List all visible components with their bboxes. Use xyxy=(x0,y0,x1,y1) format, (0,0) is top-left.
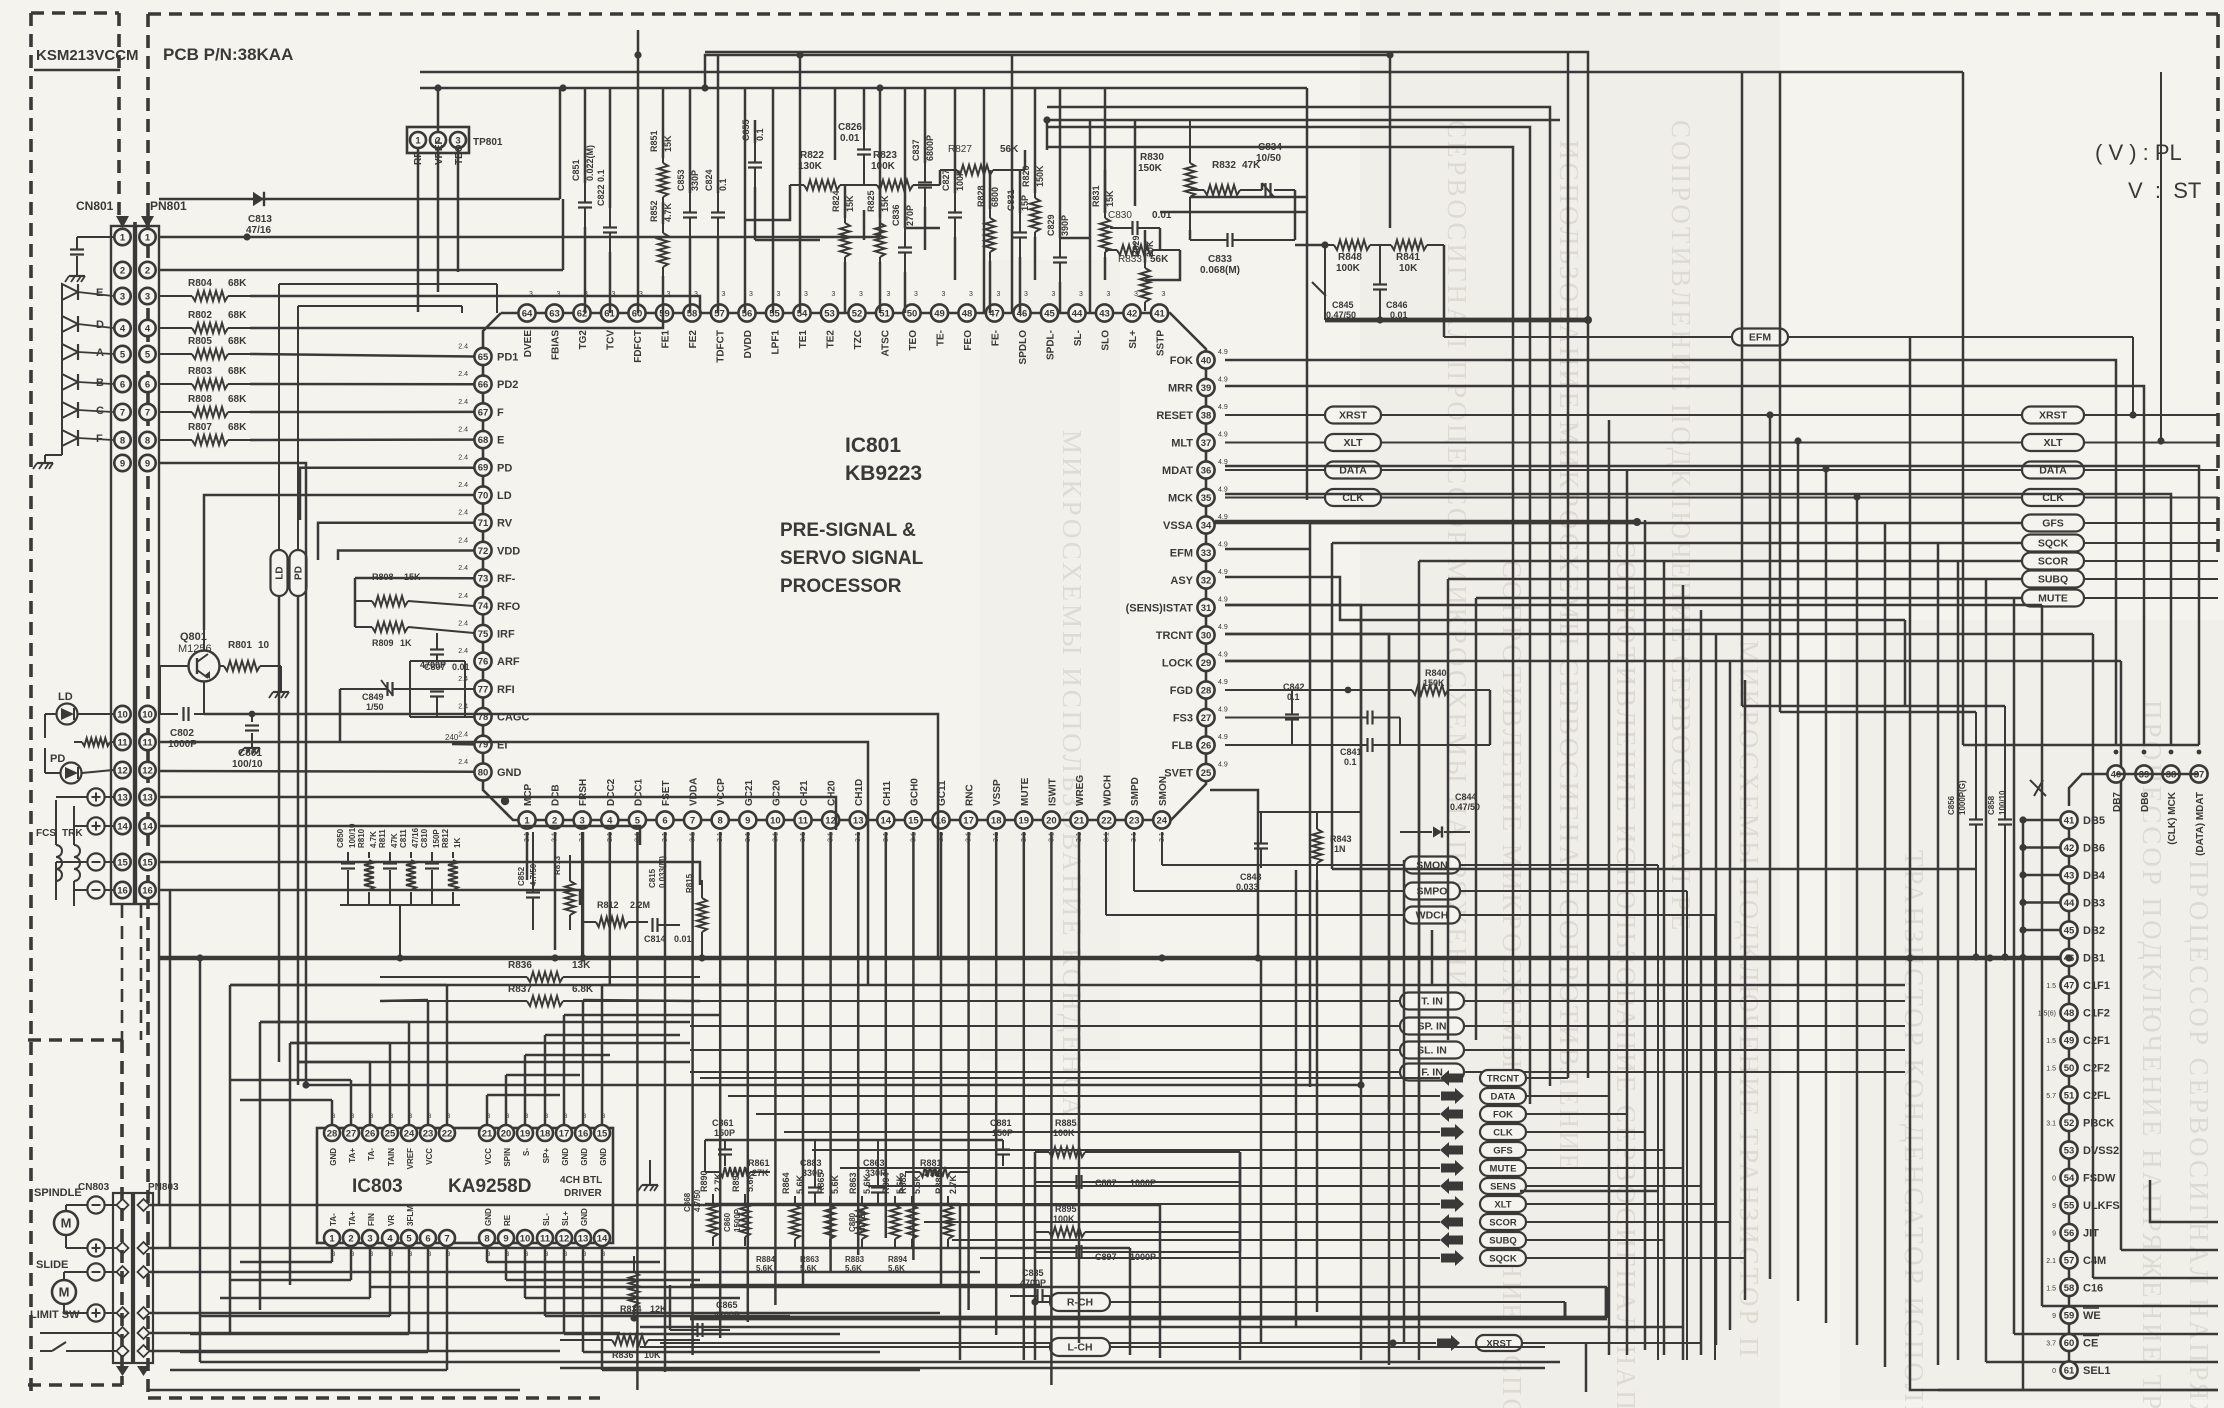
svg-text:43: 43 xyxy=(2064,870,2075,881)
svg-text:65: 65 xyxy=(478,352,489,363)
svg-text:C861: C861 xyxy=(712,1118,734,1128)
svg-text:13: 13 xyxy=(853,815,864,826)
op-amp IC803 KA9258D outline xyxy=(317,1128,613,1243)
svg-text:SQCK: SQCK xyxy=(2038,538,2069,550)
pin 55 (ULKFS) xyxy=(2052,1196,2120,1213)
svg-text:3: 3 xyxy=(120,291,125,302)
svg-text:T. IN: T. IN xyxy=(1421,996,1443,1008)
svg-text:MUTE: MUTE xyxy=(2038,593,2068,605)
svg-text:C810: C810 xyxy=(420,828,429,848)
wire xyxy=(354,578,357,627)
svg-text:41: 41 xyxy=(1154,308,1165,319)
net tag SQCK mid-low xyxy=(980,1250,1745,1266)
wire xyxy=(583,1000,700,1001)
svg-text:55: 55 xyxy=(769,308,780,319)
net tag GFS mid-low xyxy=(812,1142,1664,1158)
svg-text:2.4: 2.4 xyxy=(458,704,468,711)
wire xyxy=(1239,1152,1242,1252)
wire xyxy=(289,1043,292,1285)
svg-text:8: 8 xyxy=(484,1233,489,1244)
svg-text:RE: RE xyxy=(503,1214,512,1226)
wire xyxy=(582,1000,585,1125)
svg-text:6800P: 6800P xyxy=(925,135,935,161)
svg-text:VCCP: VCCP xyxy=(716,778,727,806)
wire xyxy=(662,202,665,224)
wire xyxy=(506,1279,700,1282)
wire xyxy=(306,1084,1361,1087)
net tag F. IN xyxy=(690,1064,1905,1081)
svg-text:50: 50 xyxy=(2064,1063,2075,1074)
wire xyxy=(1306,88,1309,500)
wire xyxy=(199,958,202,1362)
wire xyxy=(159,198,560,201)
svg-text:R880: R880 xyxy=(934,1172,944,1194)
net tag SUBQ mid-low xyxy=(952,1232,1664,1248)
svg-text:C844: C844 xyxy=(1455,792,1477,802)
net tag SENS mid-low xyxy=(868,1178,1701,1194)
svg-text:1: 1 xyxy=(120,232,126,243)
svg-text:11: 11 xyxy=(117,737,128,748)
resistor R807 68K xyxy=(159,422,250,445)
resistor R829 20K xyxy=(1131,235,1155,311)
junction xyxy=(1158,954,1165,961)
svg-text:R810: R810 xyxy=(357,828,366,848)
wire xyxy=(705,52,1588,1078)
wire xyxy=(1047,147,1513,1123)
capacitor C856b xyxy=(891,204,915,272)
svg-text:4CH BTL: 4CH BTL xyxy=(560,1175,602,1186)
svg-text:RV: RV xyxy=(497,518,513,530)
wire xyxy=(297,596,300,1085)
capacitor C828 xyxy=(741,119,765,187)
pin 42 (DB6) xyxy=(2060,839,2105,856)
svg-text:69: 69 xyxy=(478,463,489,474)
svg-text:12: 12 xyxy=(825,815,836,826)
wire xyxy=(159,797,836,830)
resistor R865v xyxy=(816,1172,840,1248)
resistor R809 1K xyxy=(355,622,474,648)
svg-text:68K: 68K xyxy=(228,394,247,405)
capacitor C841 0.1 xyxy=(1225,711,1400,768)
pin 3 IC803 xyxy=(362,1213,378,1258)
resistor R895 100K xyxy=(1035,1204,1240,1237)
svg-text:3: 3 xyxy=(887,291,891,298)
net tag MUTE mid-low xyxy=(840,1160,1683,1176)
pin 47 (FE-) xyxy=(986,291,1003,346)
pin 38 (RESET) xyxy=(1156,404,1228,424)
svg-text:330P: 330P xyxy=(690,170,700,191)
svg-text:( V ) : PL: ( V ) : PL xyxy=(2095,140,2182,165)
net tag PD xyxy=(290,306,463,596)
svg-text:DVEE: DVEE xyxy=(523,330,534,358)
wire xyxy=(1034,1302,1037,1360)
svg-text:R830: R830 xyxy=(1140,152,1164,163)
svg-text:5.6K: 5.6K xyxy=(745,1172,755,1192)
wire xyxy=(1225,660,2121,663)
svg-text:9: 9 xyxy=(2052,1231,2056,1238)
wire xyxy=(1295,244,1325,247)
wire xyxy=(584,88,587,183)
junction xyxy=(1386,51,1393,58)
pin 44 (SL-) xyxy=(1068,291,1085,346)
svg-text:6: 6 xyxy=(145,379,150,390)
svg-text:77: 77 xyxy=(478,684,489,695)
svg-text:16: 16 xyxy=(117,885,128,896)
wire xyxy=(2069,774,2107,806)
wire xyxy=(1023,832,1026,1360)
wire xyxy=(1225,386,2144,745)
wire xyxy=(1475,598,1478,1040)
wire xyxy=(857,832,860,1255)
svg-text:C807: C807 xyxy=(424,662,446,672)
wire xyxy=(1078,832,1081,1343)
svg-text:0.068(M): 0.068(M) xyxy=(1200,265,1240,276)
pin 12 (CH20) xyxy=(822,780,839,842)
pin 66 (PD2) xyxy=(458,371,518,393)
wire xyxy=(446,1246,449,1370)
pin 14 IC803 xyxy=(594,1230,610,1258)
wire xyxy=(505,1075,508,1125)
svg-text:R841: R841 xyxy=(1396,252,1420,263)
svg-text:8: 8 xyxy=(145,435,150,446)
pin 60 (CE) xyxy=(2046,1334,2099,1351)
junction DB xyxy=(2019,844,2026,851)
net tag CLK mid-low xyxy=(784,1124,1645,1140)
svg-text:3: 3 xyxy=(367,1233,372,1244)
wire xyxy=(260,1021,690,1024)
resistor R840 150K xyxy=(1225,668,1490,695)
resistor R882 5.6K xyxy=(898,1172,922,1248)
wire xyxy=(1046,120,1049,150)
wire xyxy=(662,276,665,313)
label CN803 xyxy=(78,1182,110,1193)
wire xyxy=(583,1351,880,1354)
svg-text:DRIVER: DRIVER xyxy=(564,1188,603,1199)
pin 48 (C1F2) xyxy=(2038,1004,2110,1021)
capacitor C831 15P xyxy=(1006,189,1030,257)
svg-text:LD: LD xyxy=(275,566,286,579)
wire xyxy=(220,1297,370,1300)
svg-text:GND: GND xyxy=(497,767,522,779)
label KA9258D xyxy=(448,1176,531,1197)
wire xyxy=(1780,711,1976,714)
resistor R802 68K xyxy=(159,310,250,333)
wire xyxy=(525,1297,740,1300)
pin 59 (WE) xyxy=(2052,1306,2101,1323)
wire xyxy=(1019,257,1022,313)
svg-text:TA-: TA- xyxy=(329,1213,338,1226)
svg-text:4.9: 4.9 xyxy=(1218,404,1228,411)
wire xyxy=(1011,55,1014,313)
svg-text:DCC1: DCC1 xyxy=(633,778,644,806)
wire xyxy=(457,149,460,272)
pin 27 IC803 xyxy=(343,1114,359,1163)
pin 28 (FGD) xyxy=(1170,679,1228,699)
pin 57 (C4M) xyxy=(2046,1251,2106,1268)
svg-text:1.5(6): 1.5(6) xyxy=(2038,1011,2056,1018)
wire xyxy=(705,55,1390,228)
svg-text:DVDD: DVDD xyxy=(743,330,754,358)
svg-text:VREF: VREF xyxy=(434,138,445,165)
wire xyxy=(1448,578,2022,581)
wire xyxy=(318,523,474,560)
wire xyxy=(959,1252,962,1360)
capacitor C858 100/10 xyxy=(1987,706,2046,961)
svg-text:CLK: CLK xyxy=(1493,1128,1513,1139)
svg-text:R812: R812 xyxy=(597,900,619,910)
svg-text:3: 3 xyxy=(1134,291,1138,298)
junction xyxy=(634,51,641,58)
svg-text:9: 9 xyxy=(145,458,150,469)
wire xyxy=(717,237,720,313)
svg-text:13: 13 xyxy=(578,1233,589,1244)
svg-text:46: 46 xyxy=(1017,308,1028,319)
pin 64 (DVEE) xyxy=(518,291,535,357)
svg-text:R836: R836 xyxy=(508,960,532,971)
wire xyxy=(1419,560,2022,563)
motor spindle xyxy=(54,1205,87,1248)
wire xyxy=(745,185,790,220)
wire xyxy=(170,1369,447,1372)
pin 16 IC803 xyxy=(575,1114,591,1166)
svg-text:TDFCT: TDFCT xyxy=(716,330,727,363)
pin 24 (SMON) xyxy=(1153,776,1170,842)
svg-text:KB9223: KB9223 xyxy=(845,462,922,485)
wire xyxy=(339,689,342,742)
svg-text:TRCNT: TRCNT xyxy=(1156,630,1194,642)
wire xyxy=(662,88,665,158)
junction comb xyxy=(1766,411,1860,500)
svg-text:71: 71 xyxy=(478,518,489,529)
svg-text:2.4: 2.4 xyxy=(458,399,468,406)
svg-text:ПРОЦЕССОР СЕРВОСИГНАЛ НАПРЯЖЕН: ПРОЦЕССОР СЕРВОСИГНАЛ НАПРЯЖЕН xyxy=(2184,860,2214,1408)
svg-text:C836: C836 xyxy=(891,204,901,226)
op-amp IC801 KB9223 outline xyxy=(483,313,1206,820)
svg-text:R851: R851 xyxy=(649,130,659,152)
wire xyxy=(298,1061,690,1064)
svg-text:R864: R864 xyxy=(781,1172,791,1194)
svg-text:7: 7 xyxy=(120,407,125,418)
junction DB xyxy=(2019,871,2026,878)
label SPINDLE xyxy=(34,1187,82,1199)
wire xyxy=(1626,470,1629,1355)
wire xyxy=(844,262,847,313)
wire xyxy=(954,88,957,193)
svg-text:SP+: SP+ xyxy=(542,1148,551,1164)
resistor R843 1N xyxy=(1312,812,1352,880)
pin 74 (RFO) xyxy=(458,593,520,615)
net tag LD xyxy=(271,284,498,596)
wire xyxy=(1034,237,1037,280)
pin 58 (C16) xyxy=(2046,1279,2103,1296)
capacitor C852 4.7/50 xyxy=(517,832,540,930)
pin 63 (FBIAS) xyxy=(546,291,563,360)
pin 1 IC803 xyxy=(324,1213,340,1258)
wire xyxy=(1431,930,1434,985)
wire xyxy=(989,170,992,209)
svg-text:56: 56 xyxy=(742,308,753,319)
wire xyxy=(863,88,866,130)
junction xyxy=(1986,954,1993,961)
svg-text:1K: 1K xyxy=(453,838,462,848)
pin 55 (LPF1) xyxy=(766,291,783,354)
pin 51 (ATSC) xyxy=(876,291,893,356)
wire xyxy=(601,1246,604,1370)
wire xyxy=(563,1015,566,1125)
junction R848 box xyxy=(1321,241,1592,324)
net tag SMON xyxy=(1162,832,1658,1360)
wire xyxy=(1715,635,1718,1345)
svg-text:IRF: IRF xyxy=(497,629,515,641)
motor slide xyxy=(52,1272,87,1313)
svg-text:68K: 68K xyxy=(228,310,247,321)
svg-text:LD: LD xyxy=(497,490,512,502)
svg-text:VSSP: VSSP xyxy=(992,779,1003,806)
svg-text:59: 59 xyxy=(2064,1310,2075,1321)
terminal track + xyxy=(74,812,113,835)
svg-text:3FLM: 3FLM xyxy=(406,1205,415,1226)
wire xyxy=(350,1080,353,1125)
svg-text:7: 7 xyxy=(690,815,695,826)
svg-text:42: 42 xyxy=(1127,308,1138,319)
svg-text:SMPD: SMPD xyxy=(1130,777,1141,806)
wire xyxy=(1210,790,1258,957)
svg-text:C853: C853 xyxy=(676,169,686,191)
net tag SUBQ right xyxy=(2022,571,2218,588)
svg-text:100K: 100K xyxy=(871,161,896,172)
svg-text:68: 68 xyxy=(478,435,489,446)
wire xyxy=(1050,832,1053,1385)
resistor R880 2.7K xyxy=(934,1172,958,1248)
svg-text:50: 50 xyxy=(907,308,918,319)
wire xyxy=(609,88,612,208)
svg-text:2.4: 2.4 xyxy=(458,371,468,378)
svg-text:DCB: DCB xyxy=(551,784,562,806)
coil TRK xyxy=(74,806,80,906)
wire xyxy=(355,577,474,580)
svg-text:(DATA) MDAT: (DATA) MDAT xyxy=(2195,792,2206,856)
svg-text:R823: R823 xyxy=(873,150,897,161)
svg-text:ATSC: ATSC xyxy=(881,330,892,356)
wire xyxy=(1963,744,2199,747)
capacitor C849 1/50 xyxy=(340,680,474,712)
svg-text:DB2: DB2 xyxy=(2083,925,2105,937)
pin 17 (RNC) xyxy=(960,784,977,842)
net tag DATA mid xyxy=(1225,462,2022,479)
svg-text:WDCH: WDCH xyxy=(1103,775,1114,806)
resistor R813 xyxy=(553,855,575,930)
svg-text:SL-: SL- xyxy=(1073,330,1084,346)
pin 4 (DCC2) xyxy=(601,778,618,842)
wire xyxy=(1260,958,1263,1343)
net tag SP. IN xyxy=(690,1018,1905,1035)
svg-text:15K: 15K xyxy=(1105,190,1115,207)
wire xyxy=(486,1095,489,1125)
svg-text:LOCK: LOCK xyxy=(1162,658,1193,670)
junction xyxy=(551,954,558,961)
svg-text:40: 40 xyxy=(1201,355,1212,366)
wire xyxy=(1309,523,1312,1087)
wire xyxy=(2093,1277,2218,1280)
svg-text:0.022(M): 0.022(M) xyxy=(585,145,595,181)
svg-text:7: 7 xyxy=(444,1233,449,1244)
svg-text:100K: 100K xyxy=(1053,1128,1075,1138)
wire xyxy=(636,832,639,1390)
wire xyxy=(300,468,474,520)
svg-text:2.4: 2.4 xyxy=(458,454,468,461)
wire xyxy=(148,1389,520,1392)
wire xyxy=(863,210,866,240)
svg-text:C2F1: C2F1 xyxy=(2083,1035,2110,1047)
capacitor C808 4700P xyxy=(420,633,446,670)
wire xyxy=(2068,1351,2071,1361)
svg-text:14: 14 xyxy=(142,821,153,832)
svg-text:GND: GND xyxy=(599,1148,608,1166)
svg-text:LPF1: LPF1 xyxy=(771,330,782,355)
svg-text:IC803: IC803 xyxy=(352,1176,403,1197)
svg-text:37: 37 xyxy=(1201,438,1212,449)
wire xyxy=(690,1284,1040,1287)
svg-text:32: 32 xyxy=(1201,575,1212,586)
pin 56 (DVDD) xyxy=(738,291,755,358)
wire xyxy=(2116,773,2199,776)
wire xyxy=(545,1034,680,1037)
svg-text:4.9: 4.9 xyxy=(1218,624,1228,631)
wire xyxy=(1825,469,1828,1323)
wire xyxy=(879,262,882,313)
svg-text:R890: R890 xyxy=(699,1170,709,1192)
pin 36 (MDAT) xyxy=(1162,459,1228,479)
resistor R835 10K xyxy=(560,1335,700,1360)
svg-text:CH21: CH21 xyxy=(799,780,810,806)
label 240 ohm xyxy=(445,733,459,742)
wire xyxy=(2068,939,2071,949)
svg-text:1: 1 xyxy=(415,135,421,146)
svg-text:49: 49 xyxy=(2064,1035,2075,1046)
svg-text:C850: C850 xyxy=(336,828,345,848)
svg-text:XLT: XLT xyxy=(2043,437,2063,449)
wire xyxy=(159,862,700,885)
svg-text:28: 28 xyxy=(327,1128,338,1139)
resistor R851 xyxy=(649,130,673,206)
svg-text:2.2M: 2.2M xyxy=(630,900,650,910)
svg-text:1500P: 1500P xyxy=(733,1208,742,1232)
svg-text:17: 17 xyxy=(559,1128,570,1139)
wire xyxy=(640,1326,1683,1329)
svg-text:3: 3 xyxy=(832,291,836,298)
pin 3 (FRSH) xyxy=(574,779,591,842)
svg-text:54: 54 xyxy=(797,308,808,319)
svg-text:4.9: 4.9 xyxy=(1218,487,1228,494)
wire xyxy=(689,88,692,193)
svg-text:1N: 1N xyxy=(1334,844,1346,854)
pin 14 (CH11) xyxy=(877,781,894,842)
svg-text:C2FL: C2FL xyxy=(2083,1090,2111,1102)
svg-text:R884: R884 xyxy=(756,1255,776,1264)
wire xyxy=(1225,633,2093,636)
svg-text:R852: R852 xyxy=(649,200,659,222)
svg-text:TA+: TA+ xyxy=(348,1148,357,1163)
svg-text:15P: 15P xyxy=(1020,195,1030,211)
svg-text:7: 7 xyxy=(145,407,150,418)
svg-text:25: 25 xyxy=(385,1128,396,1139)
svg-text:3.7: 3.7 xyxy=(2046,1341,2056,1348)
svg-text:68K: 68K xyxy=(228,366,247,377)
svg-text:20: 20 xyxy=(1046,815,1057,826)
svg-text:56: 56 xyxy=(2064,1228,2075,1239)
svg-text:E: E xyxy=(96,287,103,299)
svg-text:R881: R881 xyxy=(920,1158,942,1168)
